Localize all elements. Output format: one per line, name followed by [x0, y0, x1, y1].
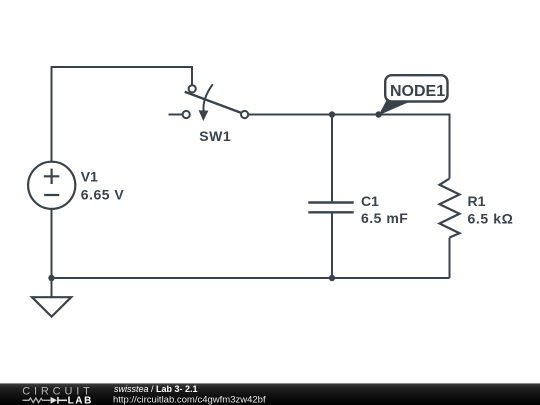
- wire C1 bottom: [331, 213, 333, 278]
- node flag NODE1 tail: [379, 100, 413, 115]
- voltage source V1: [28, 162, 75, 209]
- svg-text:http://circuitlab.com/c4gwfm3z: http://circuitlab.com/c4gwfm3zw42bf: [113, 394, 266, 405]
- svg-text:NODE1: NODE1: [390, 83, 445, 100]
- ground: [32, 297, 71, 316]
- junction dot at ground node: [48, 275, 54, 281]
- wire R1 bottom: [449, 238, 451, 279]
- svg-text:6.5 mF: 6.5 mF: [361, 210, 408, 226]
- switch SW1 pivot terminal: [189, 85, 196, 92]
- svg-text:6.5 kΩ: 6.5 kΩ: [468, 210, 514, 226]
- wire bottom rail: [52, 277, 450, 279]
- switch SW1 actuator arrow: [199, 84, 213, 121]
- svg-text:6.65 V: 6.65 V: [81, 186, 125, 202]
- switch SW1 left throw terminal: [183, 111, 190, 118]
- wire SW1 right throw to R1 top: [248, 115, 449, 179]
- svg-text:SW1: SW1: [199, 128, 231, 144]
- wire ground stub: [51, 278, 53, 297]
- wire C1 top: [331, 115, 333, 202]
- svg-text:V1: V1: [81, 169, 98, 185]
- footer bar: [0, 383, 540, 405]
- logo wire with resistor squiggle: [23, 398, 51, 403]
- resistor R1: [440, 179, 460, 238]
- junction dot at NODE1 anchor: [375, 111, 381, 117]
- svg-text:C1: C1: [361, 193, 379, 209]
- junction dot at C1 bottom node: [329, 275, 335, 281]
- logo diode symbol: [51, 397, 58, 404]
- capacitor C1 plates: [308, 203, 353, 213]
- wire V1 top to SW1 pivot: [52, 67, 193, 162]
- svg-text:swisstea / Lab 3- 2.1: swisstea / Lab 3- 2.1: [114, 384, 198, 394]
- junction dot at C1 top node: [329, 111, 335, 117]
- node flag NODE1 box: [385, 75, 447, 101]
- switch SW1 lever: [185, 92, 241, 113]
- logo diode cathode bar and lead: [58, 397, 67, 404]
- wire V1 bottom: [51, 209, 53, 278]
- svg-text:LAB: LAB: [68, 395, 93, 405]
- switch SW1 right throw terminal: [241, 111, 248, 118]
- svg-text:R1: R1: [468, 193, 486, 209]
- wire SW1 left throw stub: [169, 114, 183, 116]
